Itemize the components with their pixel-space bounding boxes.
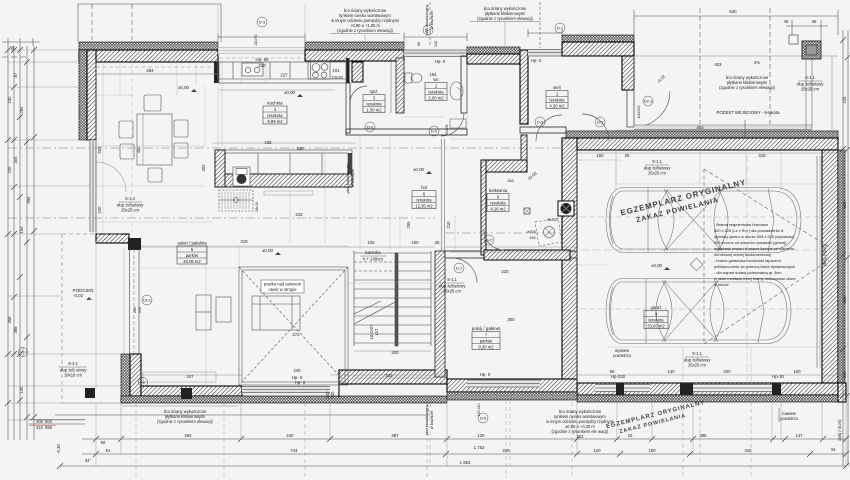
- svg-text:Hp- 0: Hp- 0: [480, 372, 491, 377]
- svg-text:pion kanalizacyjny: pion kanalizacyjny: [346, 162, 350, 193]
- svg-text:ø200: ø200: [527, 229, 537, 234]
- svg-text:D-3: D-3: [425, 29, 431, 33]
- note brama: [714, 222, 796, 287]
- svg-text:D-3: D-3: [431, 130, 437, 134]
- svg-text:319: 319: [240, 239, 248, 244]
- svg-text:410: 410: [36, 425, 44, 430]
- note bottom left: [122, 406, 238, 424]
- svg-text:403: 403: [696, 125, 704, 130]
- svg-text:kotłownia: kotłownia: [489, 188, 508, 193]
- svg-text:225: 225: [842, 96, 847, 104]
- svg-text:100: 100: [367, 240, 375, 245]
- kotlownia door: [484, 230, 504, 250]
- kitchen counter top run: [219, 62, 346, 83]
- svg-text:12,35 m2: 12,35 m2: [415, 203, 433, 208]
- window top vestibule: [528, 49, 562, 57]
- sideboard: [196, 295, 211, 330]
- svg-text:±0,00: ±0,00: [413, 167, 425, 172]
- garage south wall insulation: [577, 395, 846, 402]
- svg-text:368: 368: [7, 316, 12, 324]
- svg-text:S-1.1: S-1.1: [447, 277, 458, 282]
- svg-text:284: 284: [146, 68, 154, 73]
- hall dims: [399, 215, 401, 250]
- garage south pier 3: [772, 383, 781, 395]
- overhang dashed line salon north: [96, 58, 305, 67]
- right side inner dims: [791, 20, 793, 35]
- kitchen cooktop: [308, 61, 330, 79]
- washbasin: [450, 82, 463, 100]
- svg-text:2%: 2%: [754, 60, 760, 65]
- red annotation line: [29, 425, 56, 427]
- svg-text:- brama garażowa montować łapa: - brama garażowa montować łapaczmi: [714, 258, 781, 263]
- svg-text:półklaszczenie za pomocą blach: półklaszczenie za pomocą blach dystansow…: [714, 264, 795, 269]
- svg-text:34°: 34°: [85, 458, 92, 463]
- svg-text:232: 232: [295, 212, 303, 217]
- spiz door: [350, 86, 367, 103]
- window dim sublines: [218, 36, 305, 38]
- pion line top: [430, 2, 540, 48]
- wall top entrance insulation: [467, 47, 520, 54]
- stair stringer: [395, 253, 398, 346]
- svg-text:240: 240: [842, 371, 847, 379]
- svg-text:34: 34: [831, 447, 836, 452]
- svg-text:D2-1: D2-1: [644, 100, 652, 104]
- column west jog: [128, 238, 141, 250]
- svg-text:100: 100: [793, 369, 801, 374]
- svg-text:w razie montażu innej bramy do: w razie montażu innej bramy dostosować o…: [714, 276, 796, 281]
- svg-text:S-1.1: S-1.1: [692, 351, 703, 356]
- vertical extension drops bottom: [96, 393, 846, 478]
- svg-text:154: 154: [429, 72, 437, 77]
- svg-text:obrobionej dolnej fundamentowe: obrobionej dolnej fundamentowej: [714, 252, 771, 257]
- label S-1.1 garage: [684, 351, 712, 368]
- label S-1.1 podest: [797, 75, 825, 92]
- dishwasher dashed: [219, 190, 253, 211]
- svg-text:(zgodnie z rysunkiem elewacji): (zgodnie z rysunkiem elewacji): [477, 16, 533, 21]
- svg-text:otwór w stropie: otwór w stropie: [268, 287, 297, 292]
- wc door: [441, 113, 464, 136]
- svg-text:387: 387: [391, 433, 399, 438]
- svg-text:1,30 m2: 1,30 m2: [366, 107, 382, 112]
- svg-text:terakota: terakota: [366, 101, 382, 106]
- svg-text:h + 100cm: h + 100cm: [363, 257, 383, 262]
- kotlownia north wall: [481, 160, 527, 172]
- svg-text:26x10: 26x10: [547, 217, 558, 222]
- svg-text:powietrza: powietrza: [613, 353, 631, 358]
- svg-text:294: 294: [184, 433, 192, 438]
- window west salon lower: [124, 249, 139, 354]
- svg-text:300: 300: [842, 296, 847, 304]
- hall west boundary: [442, 139, 445, 251]
- svg-text:340: 340: [744, 448, 752, 453]
- svg-text:60: 60: [101, 440, 106, 445]
- garage west wall masonry: [562, 138, 577, 385]
- svg-text:pion kanalizacyjny: pion kanalizacyjny: [425, 404, 429, 435]
- label sien: [546, 85, 568, 109]
- wall gabinet north: [445, 251, 577, 258]
- wall entrance door jamb: [627, 90, 634, 127]
- section line A: [8, 148, 562, 233]
- svg-text:25x25 cm: 25x25 cm: [121, 208, 139, 213]
- label S-2.1: [59, 361, 87, 378]
- svg-text:90/205: 90/205: [445, 125, 449, 136]
- label S-1.1 garage north: [644, 159, 672, 176]
- svg-text:232: 232: [385, 373, 393, 378]
- svg-text:D-3: D-3: [259, 21, 265, 25]
- svg-text:x17: x17: [374, 328, 379, 335]
- svg-text:Hp-230: Hp-230: [611, 374, 626, 379]
- note nawiew: [779, 408, 798, 422]
- svg-text:225: 225: [502, 448, 510, 453]
- stair treads: [354, 252, 431, 254]
- toilet: [405, 73, 412, 83]
- top extent line: [78, 3, 221, 5]
- svg-text:272: 272: [292, 332, 300, 337]
- svg-text:34: 34: [10, 45, 15, 50]
- svg-text:500: 500: [842, 201, 847, 209]
- garage east wall insulation: [838, 150, 845, 392]
- terrace south insulation band: [121, 396, 447, 403]
- svg-text:wc: wc: [433, 77, 439, 82]
- svg-text:25x25 cm: 25x25 cm: [443, 289, 461, 294]
- chimney block kitchen: [346, 58, 350, 83]
- svg-text:101: 101: [332, 68, 340, 73]
- column S-2.1: [85, 388, 95, 398]
- note wywiew: [613, 348, 631, 358]
- podest roof line: [634, 55, 838, 57]
- svg-text:D-1: D-1: [456, 267, 462, 271]
- svg-text:- Brama segmentowa Hormann: - Brama segmentowa Hormann: [714, 222, 768, 227]
- svg-text:240: 240: [330, 391, 335, 399]
- garage door swing dashed: [704, 169, 829, 344]
- island counter divisions: [225, 153, 348, 174]
- wall top sien masonry: [562, 42, 634, 56]
- svg-text:403: 403: [714, 62, 722, 67]
- garage north wall insulation: [566, 131, 838, 138]
- svg-text:(zgodnie z rysunkiem elewacji): (zgodnie z rysunkiem elewacji): [337, 28, 393, 33]
- svg-text:210: 210: [501, 269, 509, 274]
- svg-text:230: 230: [7, 96, 12, 104]
- label gabinet: [472, 326, 501, 350]
- svg-text:S-1.1: S-1.1: [652, 159, 663, 164]
- wall left upper insulation: [79, 50, 87, 140]
- svg-text:D-1: D-1: [557, 27, 563, 31]
- svg-text:±0,00: ±0,00: [284, 90, 296, 95]
- column S-1.1: [802, 41, 821, 59]
- svg-text:240: 240: [434, 41, 438, 47]
- svg-text:40,06 m2: 40,06 m2: [183, 259, 201, 264]
- svg-text:Hp- 0: Hp- 0: [435, 59, 446, 64]
- svg-text:200: 200: [723, 369, 731, 374]
- svg-text:sień: sień: [553, 85, 562, 90]
- svg-text:240: 240: [138, 307, 142, 313]
- svg-text:barierka: barierka: [365, 250, 381, 255]
- svg-text:60: 60: [417, 42, 421, 46]
- svg-text:255: 255: [406, 221, 411, 229]
- svg-text:45: 45: [784, 19, 789, 24]
- wall top-left masonry: [79, 50, 218, 62]
- svg-text:(zgodnie z rysunkiem elewacji): (zgodnie z rysunkiem elewacji): [719, 85, 775, 90]
- salon horizontal grid: [96, 94, 134, 96]
- svg-text:D-6: D-6: [367, 126, 373, 130]
- svg-text:±0,00: ±0,00: [651, 263, 663, 268]
- label kotlownia: [487, 188, 509, 212]
- svg-text:Hp- 90: Hp- 90: [256, 57, 270, 62]
- svg-text:S-2.1: S-2.1: [68, 361, 79, 366]
- kitchen sink: [242, 63, 263, 76]
- svg-text:120 240: 120 240: [477, 404, 481, 417]
- top-left small dims: [2, 41, 40, 43]
- svg-text:90: 90: [610, 369, 615, 374]
- svg-text:terakota: terakota: [648, 317, 664, 322]
- svg-text:15: 15: [628, 433, 633, 438]
- svg-text:Hp- 0: Hp- 0: [295, 380, 306, 385]
- gabinet south wall masonry: [339, 370, 447, 384]
- island wall hatch south: [215, 174, 352, 187]
- svg-text:198: 198: [529, 235, 536, 240]
- svg-text:213: 213: [577, 434, 585, 439]
- svg-text:terakota: terakota: [549, 97, 565, 102]
- svg-text:994: 994: [26, 196, 31, 204]
- svg-text:744: 744: [290, 448, 298, 453]
- window top kitchen: [218, 47, 305, 55]
- garage south window 1: [595, 384, 650, 392]
- garage south window 2: [693, 384, 772, 392]
- garage drain: [690, 258, 703, 271]
- svg-text:D-6: D-6: [480, 417, 486, 421]
- sien door 2: [582, 114, 609, 141]
- svg-text:PODEST WEJŚCIOWY - terakota: PODEST WEJŚCIOWY - terakota: [717, 110, 781, 115]
- svg-text:260: 260: [133, 307, 137, 313]
- svg-text:Hp-30: Hp-30: [772, 374, 784, 379]
- svg-text:terakota: terakota: [267, 113, 283, 118]
- garage SE corner block: [838, 383, 846, 402]
- gabinet south window: [467, 380, 540, 388]
- svg-text:w bruździe: w bruździe: [351, 169, 355, 187]
- svg-text:87: 87: [13, 72, 18, 77]
- svg-text:13x10: 13x10: [331, 75, 343, 80]
- svg-text:500 x 225 (Lz x Rm ) dla prowa: 500 x 225 (Lz x Rm ) dla prowadzenia N: [714, 228, 784, 233]
- wall left upper masonry: [87, 50, 96, 140]
- svg-text:400: 400: [36, 419, 44, 424]
- shelf below island: [264, 191, 313, 195]
- svg-text:240: 240: [296, 146, 304, 151]
- svg-text:140: 140: [667, 369, 675, 374]
- svg-text:385: 385: [699, 433, 707, 438]
- chairs: [144, 95, 161, 111]
- svg-text:25x25 cm: 25x25 cm: [688, 363, 706, 368]
- svg-text:100/220: 100/220: [637, 106, 641, 119]
- garage south pier 2: [680, 383, 693, 395]
- svg-text:(zgodnie z rysunkiem elewacji): (zgodnie z rysunkiem elewacji): [157, 419, 213, 424]
- partition sien south: [520, 127, 566, 133]
- island sink box: [233, 167, 250, 186]
- svg-text:108: 108: [507, 178, 514, 183]
- svg-text:1 753: 1 753: [474, 445, 485, 450]
- column S-1.3b: [181, 388, 192, 399]
- svg-text:- dla wspart ścianę polerowaną: - dla wspart ścianę polerowaną gr. 3cm: [714, 270, 781, 275]
- svg-text:284: 284: [19, 106, 24, 114]
- label salon: [177, 241, 207, 265]
- car 1: [606, 188, 801, 253]
- svg-text:302: 302: [201, 164, 206, 172]
- svg-text:w murze: w murze: [714, 282, 729, 287]
- svg-text:555: 555: [45, 425, 53, 430]
- svg-text:S-1.3: S-1.3: [125, 196, 136, 201]
- svg-text:140: 140: [19, 386, 24, 394]
- window west salon upper: [90, 140, 97, 232]
- svg-text:18x18 cm: 18x18 cm: [64, 373, 82, 378]
- svg-text:530: 530: [729, 9, 737, 14]
- svg-text:hol: hol: [421, 185, 427, 190]
- svg-text:227: 227: [280, 73, 288, 78]
- south wall mid masonry: [447, 379, 577, 392]
- garage door leaf lines: [816, 156, 818, 368]
- wall jog kitchen west: [214, 62, 219, 83]
- svg-text:próg (-3cm): próg (-3cm): [822, 244, 827, 266]
- svg-text:220: 220: [7, 166, 12, 174]
- svg-text:-0,02: -0,02: [73, 293, 84, 298]
- car 2: [606, 279, 791, 344]
- wall jog vestibule: [520, 50, 528, 124]
- svg-text:120: 120: [593, 448, 601, 453]
- svg-text:388: 388: [13, 326, 18, 334]
- window top wc: [404, 50, 467, 58]
- svg-text:±0,00: ±0,00: [178, 85, 190, 90]
- salon west arc: [96, 162, 126, 192]
- svg-text:w bruździe: w bruździe: [430, 11, 434, 29]
- label garaz: [644, 305, 668, 329]
- salon SW corner masonry: [130, 354, 141, 396]
- svg-text:150: 150: [648, 448, 656, 453]
- svg-text:240: 240: [293, 368, 301, 373]
- kotlownia south wall: [484, 250, 570, 260]
- svg-text:240: 240: [97, 206, 102, 214]
- svg-text:160: 160: [19, 226, 24, 234]
- svg-text:210: 210: [258, 63, 266, 68]
- stair side: [353, 251, 355, 346]
- svg-text:505 liczone od wierzchu posadz: 505 liczone od wierzchu posadzki (górnej…: [714, 240, 787, 245]
- svg-text:D-2: D-2: [486, 239, 492, 243]
- svg-text:9,30 m2: 9,30 m2: [478, 344, 494, 349]
- svg-text:240: 240: [286, 433, 294, 438]
- svg-text:D-1: D-1: [597, 121, 603, 125]
- wall top entrance masonry: [467, 54, 520, 64]
- boiler in wall niche: [558, 201, 574, 216]
- svg-text:terakota: terakota: [428, 89, 444, 94]
- svg-text:318: 318: [758, 153, 766, 158]
- svg-text:502: 502: [97, 146, 102, 154]
- salon SW corner insulation: [121, 354, 130, 403]
- svg-text:terakota: terakota: [490, 200, 506, 205]
- svg-text:D-5: D-5: [537, 121, 543, 125]
- svg-text:247: 247: [186, 374, 194, 379]
- salon south window: [242, 386, 330, 394]
- garage south wall masonry: [577, 383, 838, 395]
- svg-text:26x10: 26x10: [255, 202, 259, 212]
- svg-text:w bruździe: w bruździe: [430, 411, 434, 429]
- note podest: [719, 75, 775, 90]
- wall west jog: [96, 234, 129, 243]
- svg-text:pustka nad salonem: pustka nad salonem: [264, 282, 302, 287]
- svg-text:-0,30: -0,30: [56, 444, 61, 454]
- partition spiz west: [346, 83, 350, 133]
- flue dashed box: [535, 218, 562, 246]
- svg-text:4,30 m2: 4,30 m2: [549, 103, 565, 108]
- svg-text:25: 25: [625, 153, 630, 158]
- kotlownia north stub: [521, 135, 527, 160]
- note top 1: [330, 8, 400, 34]
- podcien dashed outline: [62, 60, 121, 403]
- drain label: [234, 198, 239, 203]
- svg-text:powietrza: powietrza: [780, 416, 798, 421]
- wall top mid insulation: [305, 42, 404, 50]
- label wc: [425, 77, 447, 101]
- svg-text:salon / jadalnia: salon / jadalnia: [177, 241, 207, 246]
- svg-text:4,16 m2: 4,16 m2: [490, 206, 506, 211]
- svg-text:terakota: terakota: [416, 197, 432, 202]
- svg-text:147: 147: [795, 433, 803, 438]
- svg-text:25: 25: [435, 240, 440, 245]
- svg-text:25x25 cm: 25x25 cm: [648, 171, 666, 176]
- left tick rows: [5, 47, 37, 420]
- svg-text:482: 482: [137, 147, 141, 153]
- wall top mid masonry: [305, 50, 404, 61]
- salon south wall masonry: [141, 386, 242, 396]
- svg-text:500: 500: [45, 419, 53, 424]
- kitchen cabinet divisions: [232, 62, 234, 79]
- label spiz: [363, 89, 385, 113]
- garage verticals: [615, 150, 617, 184]
- svg-text:150: 150: [596, 153, 604, 158]
- label kuchnia: [263, 101, 287, 125]
- svg-text:335: 335: [264, 140, 272, 145]
- svg-text:Hp- 0: Hp- 0: [531, 58, 542, 63]
- svg-text:210: 210: [446, 221, 451, 229]
- svg-text:parkiet: parkiet: [186, 253, 199, 258]
- svg-text:25x25-cm: 25x25-cm: [801, 87, 820, 92]
- wall top sien insulation: [562, 35, 634, 42]
- note top 2: [470, 6, 540, 22]
- garage south pier 1: [616, 383, 624, 395]
- stair break line: [354, 301, 397, 324]
- wall east sien: [622, 56, 634, 90]
- label S-1.3: [117, 196, 145, 213]
- svg-text:304: 304: [13, 156, 18, 164]
- garage north wall masonry: [566, 138, 838, 150]
- island right cap: [348, 153, 352, 174]
- south wall mid insulation: [447, 392, 577, 400]
- svg-text:200: 200: [391, 350, 399, 355]
- bottom ticks: [57, 436, 849, 469]
- svg-text:pokj (-3cm): pokj (-3cm): [837, 419, 842, 441]
- podest slab edge: [634, 126, 812, 131]
- table: [137, 114, 172, 165]
- label pustka: [261, 280, 304, 293]
- corner mark: [789, 35, 798, 44]
- svg-text:8,99 m2: 8,99 m2: [267, 119, 283, 124]
- svg-text:wysokość otworu w murze liczon: wysokość otworu w murze liczona od wierz…: [714, 246, 794, 251]
- svg-text:Dś-1: Dś-1: [143, 299, 151, 303]
- partition hall north: [346, 129, 467, 135]
- vent square: [524, 208, 530, 214]
- svg-text:Hp: Hp: [141, 381, 146, 385]
- note leaders: [364, 34, 366, 44]
- note bottom center: [546, 409, 614, 439]
- wall top-left insulation strip: [79, 42, 218, 50]
- partition wc west: [396, 58, 404, 113]
- entrance door arc: [634, 91, 670, 127]
